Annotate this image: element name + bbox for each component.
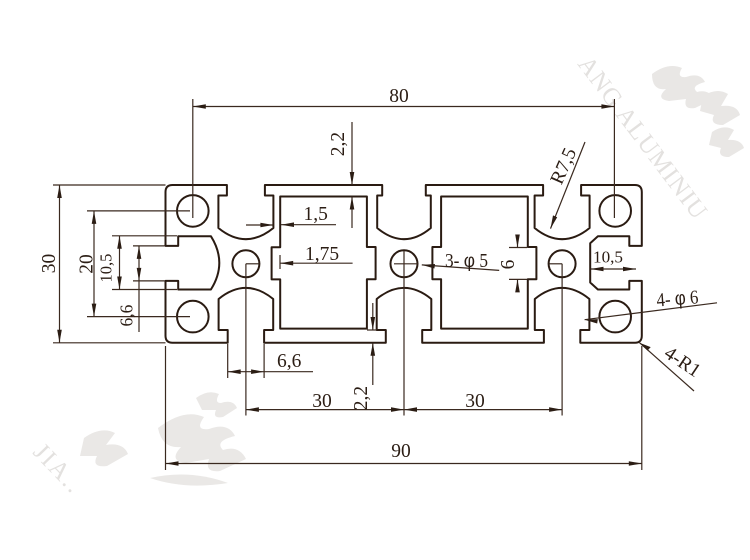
arrow 80 right	[601, 104, 614, 109]
dim 6,6 bottom line	[228, 371, 313, 373]
corner hole bottom-right (phi6)	[599, 301, 631, 333]
svg-text:1,75: 1,75	[305, 244, 339, 265]
svg-text:6: 6	[498, 259, 519, 269]
leader 4-phi6	[585, 303, 717, 320]
svg-text:R7,5: R7,5	[547, 145, 581, 188]
dim 2,2 bottom ext	[367, 329, 377, 331]
arrow 6,6B left	[228, 369, 241, 374]
arrow 10,5L top	[117, 236, 122, 249]
dim 10,5 ext bottom	[112, 289, 177, 291]
dim 90 ext left	[165, 346, 167, 470]
dim 2,2 top upper line	[351, 122, 353, 185]
svg-text:20: 20	[77, 254, 98, 274]
svg-text:6,6: 6,6	[117, 304, 137, 326]
profile outline (aluminium extrusion 90x30 cross-section)	[166, 185, 642, 343]
arrow 2,2T up	[350, 197, 355, 210]
arrow 30BR left	[404, 407, 417, 412]
arrow 6,6L bottom	[137, 268, 142, 281]
dim 90 line	[166, 463, 642, 465]
centerline S1 (phi5 left)	[245, 264, 247, 416]
arrow 4-phi6	[585, 319, 598, 323]
watermark text ANG ALUMINIU top-right	[572, 51, 712, 225]
dim 6 ext bottom	[509, 278, 527, 280]
dim 80 extension left / hole centerline	[192, 99, 194, 218]
svg-text:10,5: 10,5	[97, 254, 116, 283]
arrow 30BL left	[246, 407, 259, 412]
arrow 1,75	[280, 261, 293, 266]
dim 2,2 bottom upper line	[372, 303, 374, 330]
arrow 2,2T down	[350, 172, 355, 185]
centerline S2 (phi5 middle)	[403, 251, 405, 416]
arrow 1,5 left-pointing	[281, 222, 294, 227]
dim 30 ext top	[53, 184, 166, 186]
phi5 middle horizontal tick	[394, 263, 418, 265]
svg-text:30: 30	[39, 254, 60, 274]
dim 6 lower line	[517, 279, 519, 291]
dim 1,75 line	[280, 262, 352, 264]
dim 80 extension right / hole centerline	[613, 99, 615, 218]
corner hole top-right (phi6)	[599, 195, 631, 227]
svg-text:90: 90	[391, 441, 411, 462]
svg-text:3- φ 5: 3- φ 5	[445, 250, 488, 272]
arrow 80 left	[193, 104, 206, 109]
svg-text:4-R1: 4-R1	[660, 343, 704, 382]
dim 80 line	[193, 106, 615, 108]
svg-text:30: 30	[465, 391, 485, 412]
dim 6,6 left ext bottom	[133, 280, 165, 282]
void chamber A	[272, 197, 376, 329]
svg-text:30: 30	[312, 391, 332, 412]
dim 6,6 left ext	[133, 245, 165, 247]
dim 30 ext bottom	[53, 342, 166, 344]
arrow 10,5L bottom	[117, 277, 122, 290]
svg-text:2,2: 2,2	[351, 386, 372, 410]
leader 3-phi5	[422, 265, 499, 271]
arrow 20 top	[92, 211, 97, 224]
arrow 10,5R left	[591, 267, 604, 272]
dim 10,5 right line	[591, 268, 637, 270]
watermark blob top-right	[652, 66, 744, 157]
dim 20 ext bottom (hole centerline)	[87, 316, 190, 318]
center hole left (phi5)	[232, 250, 259, 277]
leader 4-R1	[640, 343, 695, 391]
arrow 20 bottom	[92, 304, 97, 317]
dim 20 line	[93, 211, 95, 317]
center hole middle (phi5)	[391, 250, 418, 277]
dim 30 bottom-left line	[246, 409, 404, 411]
center hole right (phi5)	[549, 250, 576, 277]
arrow 90 left	[166, 461, 179, 466]
dim 6,6 left line	[138, 246, 140, 332]
leader R7,5	[551, 142, 586, 229]
dim 2,2 bottom lower line	[372, 343, 374, 385]
dim 1,5 right segment	[281, 224, 336, 226]
arrow 2,2B up	[371, 343, 376, 356]
dim 90 ext right	[641, 346, 643, 470]
svg-text:4- φ 6: 4- φ 6	[656, 286, 700, 311]
dim 30 bottom-right line	[404, 409, 562, 411]
arrow 6,6B right	[251, 369, 264, 374]
arrow 90 right	[629, 461, 642, 466]
outer boundary	[166, 185, 642, 343]
arrow 30BL right	[391, 407, 404, 412]
svg-text:JIA..: JIA..	[28, 438, 88, 499]
dim 6,6 bottom ext right	[263, 344, 265, 378]
phi5 left horizontal tick	[246, 263, 260, 265]
centerline S3 (phi5 right)	[561, 264, 563, 416]
arrow 30BR right	[549, 407, 562, 412]
corner hole bottom-left (phi6)	[177, 301, 209, 333]
watermark logo bottom-left	[80, 392, 246, 485]
svg-text:1,5: 1,5	[304, 204, 328, 225]
dim 20 ext top (hole centerline)	[87, 210, 190, 212]
dim 30 left line	[59, 185, 61, 343]
dim 6 ext top	[509, 247, 527, 249]
arrow 6 up	[515, 279, 520, 292]
arrow 4-R1	[640, 343, 651, 351]
phi5 right horizontal tick	[549, 263, 563, 265]
arrow 6,6L top	[137, 246, 142, 259]
void chamber B	[432, 197, 536, 329]
arrow 3-phi5	[422, 264, 435, 269]
arrowheads	[57, 104, 651, 466]
watermark text JIA bottom-left	[28, 438, 88, 499]
svg-text:6,6: 6,6	[277, 351, 302, 372]
arrow R7,5	[551, 215, 558, 228]
svg-text:80: 80	[389, 86, 409, 107]
arrow 1,5 right-pointing	[260, 223, 273, 228]
dim 6,6 bottom ext left	[227, 344, 229, 378]
dimension texts	[39, 86, 704, 462]
svg-text:10,5: 10,5	[593, 248, 623, 267]
arrow 10,5R right	[623, 267, 636, 272]
dim 1,75 ext tick	[279, 255, 281, 269]
corner hole top-left (phi6)	[177, 195, 209, 227]
svg-text:2,2: 2,2	[328, 132, 349, 156]
arrow 30L top	[57, 185, 62, 198]
dim 10,5 ext top	[112, 235, 177, 237]
dim 10,5 left line	[119, 236, 121, 290]
dim 6 upper line	[517, 236, 519, 248]
dim 1,5 left segment	[246, 224, 273, 226]
dim 2,2 top lower line	[351, 197, 353, 229]
arrow 2,2B down	[371, 317, 376, 330]
arrow 6 down	[515, 235, 520, 248]
dimension lines layer	[53, 99, 717, 470]
arrow 30L bottom	[57, 330, 62, 343]
